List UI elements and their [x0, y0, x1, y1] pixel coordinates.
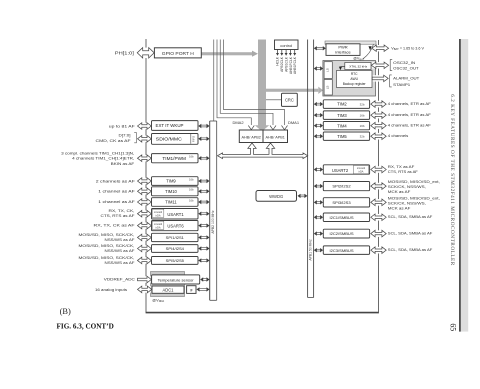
TIM11 arrow: [138, 199, 150, 206]
svg-text:smcard: smcard: [357, 167, 366, 170]
svg-text:Temperature sensor: Temperature sensor: [158, 279, 195, 283]
LS1 arrow to bus: [316, 67, 320, 69]
TIM4 box: [323, 122, 369, 130]
svg-text:OSC32_OUT: OSC32_OUT: [393, 66, 419, 71]
svg-text:SPI2/I2S2: SPI2/I2S2: [332, 184, 351, 189]
svg-text:up to 81 AF: up to 81 AF: [109, 123, 136, 128]
svg-text:NSS/WS as AF: NSS/WS as AF: [105, 238, 136, 242]
svg-text:MOSI/SD, MISO, SCK/CK,: MOSI/SD, MISO, SCK/CK,: [79, 244, 135, 248]
SDIO FIFO sub-box: [190, 134, 192, 144]
svg-text:DMA2: DMA2: [232, 120, 244, 125]
smcard tag: [353, 166, 368, 174]
svg-text:SCL, SDA, SMBA as AF: SCL, SDA, SMBA as AF: [388, 247, 433, 252]
TIM2 box: [323, 100, 369, 109]
svg-text:SCL, SDA, SMBA as AF: SCL, SDA, SMBA as AF: [388, 231, 433, 236]
svg-text:GPIO PORT H: GPIO PORT H: [162, 51, 194, 56]
binding gray strip: [461, 39, 468, 332]
svg-text:FIG. 6.3, CONT’D: FIG. 6.3, CONT’D: [57, 323, 114, 331]
svg-text:CTS, RTS as AF: CTS, RTS as AF: [101, 213, 136, 218]
svg-text:RX, TX, CK as AF: RX, TX, CK as AF: [94, 223, 136, 228]
svg-text:SPI3/I2S3: SPI3/I2S3: [332, 200, 351, 205]
svg-text:irDA: irDA: [156, 215, 161, 218]
svg-text:APB1CLK: APB1CLK: [284, 56, 288, 72]
USART6 box: [152, 221, 199, 231]
svg-text:TIM3: TIM3: [337, 113, 347, 118]
svg-text:interface: interface: [335, 50, 351, 55]
svg-text:16b: 16b: [189, 199, 194, 203]
arrow to APB2 bus: [201, 247, 207, 249]
svg-text:2 channels as AF: 2 channels as AF: [96, 178, 136, 183]
TIM2 AF pins arrow: [372, 101, 386, 108]
SPI2/I2S2 box: [323, 182, 369, 191]
USART2 arrow to APB1 bus: [316, 168, 320, 170]
ADC inputs arrow: [138, 286, 151, 293]
svg-text:AHB/ APB2: AHB/ APB2: [241, 135, 260, 139]
svg-text:NSS/WS as AF: NSS/WS as AF: [105, 261, 136, 265]
ADC1 box: [152, 286, 184, 293]
svg-text:6.2 KEY FEATURES OF THE STM32: 6.2 KEY FEATURES OF THE STM32F411 MICROC…: [449, 94, 455, 266]
gray bus branch to GPIO PORT H: [201, 52, 252, 55]
USART2 box: [323, 165, 369, 174]
wire to DMA1 arrow: [224, 40, 285, 126]
svg-text:1 channel as AF: 1 channel as AF: [98, 189, 135, 194]
AHB/APB2 bridge: [239, 130, 263, 143]
SPI1/I2S1 arrow: [138, 234, 150, 241]
svg-text:AHB/ APB1: AHB/ APB1: [265, 135, 284, 139]
bus feed lines from figure part A: [213, 40, 215, 122]
VBAT wire to backup domain: [363, 44, 374, 59]
arrow to APB2 bus: [201, 200, 207, 202]
arrow to APB2 bus: [201, 212, 207, 214]
svg-text:AHB1FCLK: AHB1FCLK: [293, 56, 297, 74]
temp sensor arrow to bus: [203, 278, 207, 280]
bracket ALARM: [390, 75, 392, 87]
TIM5 AF pins arrow: [372, 133, 386, 140]
svg-text:USART2: USART2: [332, 168, 349, 173]
binding dark line: [459, 39, 461, 332]
TIM4 AF pins arrow: [372, 122, 386, 129]
TIM1/PWM box: [152, 154, 199, 163]
TIM11 box: [152, 198, 199, 207]
TIM5 arrow to APB1 bus: [316, 134, 320, 136]
I2C3/SMBUS box: [323, 246, 369, 255]
USART2 AF pins arrow: [372, 166, 386, 173]
arrow to APB2 bus: [201, 156, 207, 158]
svg-text:AWU: AWU: [350, 77, 358, 81]
TIM4 arrow to APB1 bus: [316, 124, 320, 126]
I2C1/SMBUS box: [323, 213, 369, 222]
gray bus branch to RTC backup domain: [266, 89, 318, 92]
SPI3 arrow to APB1 bus: [316, 200, 320, 202]
svg-text:CRC: CRC: [285, 98, 294, 103]
svg-text:MOSI/SD, MISO, SCK/CK,: MOSI/SD, MISO, SCK/CK,: [79, 233, 135, 237]
svg-text:65: 65: [449, 323, 458, 331]
svg-text:I2C3/SMBUS: I2C3/SMBUS: [329, 248, 353, 253]
svg-text:USART1: USART1: [167, 212, 184, 217]
SPI2 arrow to APB1 bus: [316, 184, 320, 186]
svg-text:IF: IF: [190, 288, 193, 292]
svg-text:VDDREF_ADC: VDDREF_ADC: [104, 277, 135, 282]
wire to AHB/APB1: [220, 40, 273, 126]
TIM3 AF pins arrow: [372, 112, 386, 119]
ADC module background: [151, 272, 185, 297]
AHB/APB1 feed arrowhead: [270, 126, 276, 130]
svg-text:OSC32_IN: OSC32_IN: [393, 60, 415, 65]
svg-text:TIM5: TIM5: [337, 134, 347, 139]
APB distribution arrow tree: [218, 143, 308, 159]
Temperature sensor box: [152, 275, 200, 284]
arrow to APB2 bus: [201, 137, 207, 139]
svg-text:irDA: irDA: [156, 227, 161, 230]
ADC IF box: [187, 286, 196, 294]
svg-text:RTC: RTC: [351, 72, 358, 76]
I2C2/SMBUS box: [323, 229, 369, 238]
svg-text:SDIO/MMC: SDIO/MMC: [156, 137, 182, 142]
AHB1 bus arrowhead into bridges: [255, 125, 269, 131]
svg-text:LS: LS: [325, 68, 329, 72]
black arrow into backup domain: [369, 46, 372, 50]
USART1 box: [152, 209, 199, 220]
VBAT pin arrow: [373, 45, 388, 51]
svg-text:4 channels TIM1_CH[1:4]ETR,: 4 channels TIM1_CH[1:4]ETR,: [72, 156, 134, 161]
RTC AWU backup register box: [337, 71, 373, 88]
AHB/APB1 bridge: [263, 130, 288, 143]
arrow to APB2 bus: [201, 179, 207, 181]
svg-text:control: control: [280, 43, 292, 48]
I2C1/SMBUS arrow to APB1 bus: [316, 215, 320, 217]
LS box 1: [324, 62, 332, 79]
bracket: [134, 133, 136, 143]
svg-text:16b: 16b: [189, 178, 194, 182]
svg-text:smcard: smcard: [154, 211, 163, 214]
svg-text:TIM9: TIM9: [166, 179, 176, 184]
svg-text:@VDDA: @VDDA: [152, 299, 164, 304]
SPI5/I2S5 box: [152, 257, 199, 265]
SPI3/I2S3 box: [323, 198, 369, 207]
svg-text:CTS, RTS as AF: CTS, RTS as AF: [388, 169, 419, 174]
VBAT supply pipe: [325, 41, 376, 44]
svg-text:smcard: smcard: [154, 223, 163, 226]
svg-text:I2C2/SMBUS: I2C2/SMBUS: [329, 231, 353, 236]
OSC32 pins arrow: [372, 62, 388, 68]
USART6 arrow: [138, 222, 150, 229]
USART1 arrow: [138, 210, 150, 217]
SPI4/I2S4 box: [152, 245, 199, 253]
svg-text:16b: 16b: [189, 188, 194, 192]
svg-text:TIM1/PWM: TIM1/PWM: [162, 156, 186, 161]
svg-text:TIM4: TIM4: [337, 123, 347, 128]
RTC backup domain: [323, 61, 376, 97]
XTAL 32 kHz box: [345, 63, 371, 70]
svg-text:XTAL 32 kHz: XTAL 32 kHz: [349, 65, 367, 69]
svg-text:SCL, SDA, SMBA as AF: SCL, SDA, SMBA as AF: [388, 214, 433, 219]
svg-text:SPI5/I2S5: SPI5/I2S5: [166, 258, 185, 263]
TIM1 arrow: [138, 155, 150, 162]
TIM5 box: [323, 132, 369, 140]
svg-text:NSS/WS as AF: NSS/WS as AF: [105, 249, 136, 253]
svg-text:irDA: irDA: [359, 171, 364, 174]
SDIO arrow: [138, 136, 150, 143]
EXT IT arrow: [138, 123, 150, 130]
svg-text:APB1 50 MHz: APB1 50 MHz: [308, 239, 312, 261]
I2C3/SMBUS AF pins arrow: [372, 247, 386, 254]
svg-text:EXT IT WKUP: EXT IT WKUP: [156, 123, 184, 128]
SPI1/I2S1 box: [152, 233, 199, 241]
svg-text:DMA1: DMA1: [288, 120, 300, 125]
svg-text:MCK as AF: MCK as AF: [388, 189, 411, 194]
APB1 bus bar: [307, 40, 309, 298]
svg-text:USART6: USART6: [167, 224, 184, 229]
svg-text:APB2 100 MHz: APB2 100 MHz: [211, 210, 215, 233]
ADC arrow to bus: [199, 288, 207, 290]
TIM3 arrow to APB1 bus: [316, 113, 320, 115]
svg-text:ALARM_OUT: ALARM_OUT: [393, 76, 420, 81]
APB2 bus bar: [209, 121, 211, 300]
ALARM/STAMP pins arrow: [373, 75, 388, 81]
svg-text:Backup register: Backup register: [343, 82, 367, 86]
LS box 2: [324, 80, 332, 96]
svg-text:I2C1/SMBUS: I2C1/SMBUS: [329, 215, 353, 220]
svg-text:16b: 16b: [189, 155, 194, 159]
svg-text:FIFO: FIFO: [192, 136, 196, 142]
svg-text:MOSI/SD, MISO, SCK/CK,: MOSI/SD, MISO, SCK/CK,: [79, 256, 135, 260]
svg-text:4 channels, ETR as AF: 4 channels, ETR as AF: [388, 101, 432, 106]
svg-text:WWDG: WWDG: [269, 194, 283, 199]
WWDG arrow: [300, 194, 305, 196]
TIM10 arrow: [138, 188, 150, 195]
SDIO/MMC box: [152, 134, 199, 145]
SPI5/I2S5 arrow: [138, 257, 150, 264]
svg-text:AHB1FCLK: AHB1FCLK: [289, 56, 293, 74]
svg-text:SPI4/I2S4: SPI4/I2S4: [166, 246, 185, 251]
GPIO PORT H box: [154, 48, 201, 58]
svg-text:16 analog inputs: 16 analog inputs: [95, 287, 127, 292]
arrow to APB2 bus: [201, 224, 207, 226]
AHB1 system bus (gray vertical bar): [258, 40, 266, 127]
CRC box: [282, 93, 298, 106]
svg-text:PH[1:0]: PH[1:0]: [115, 50, 134, 55]
svg-text:LS: LS: [325, 86, 329, 90]
svg-text:MCK as AF: MCK as AF: [388, 205, 411, 210]
black connector XTAL to RTC: [339, 67, 342, 71]
wire to DMA2 arrow: [217, 40, 251, 126]
svg-text:HCLK: HCLK: [276, 56, 280, 66]
EXTI WKUP box: [152, 121, 199, 131]
svg-text:4 channels: 4 channels: [388, 133, 409, 138]
chip boundary right edge: [378, 40, 380, 313]
TIM9 arrow: [138, 178, 150, 185]
RCC control box: [275, 40, 299, 50]
svg-text:STAMP1: STAMP1: [393, 82, 410, 87]
I2C1/SMBUS AF pins arrow: [372, 214, 386, 221]
PWR interface box: [326, 44, 360, 56]
arrow to APB2 bus: [201, 236, 207, 238]
I2C2/SMBUS arrow to APB1 bus: [316, 232, 320, 234]
arrow to APB2 bus: [201, 189, 207, 191]
smcard tag: [152, 209, 164, 217]
svg-text:APB2CLK: APB2CLK: [280, 56, 284, 72]
SPI4/I2S4 arrow: [138, 245, 150, 252]
svg-text:4 channels, ETR as AF: 4 channels, ETR as AF: [388, 112, 432, 117]
bracket OSC32: [390, 60, 392, 71]
svg-text:3 compl. channels TIM1_CH1[1:3: 3 compl. channels TIM1_CH1[1:3]N,: [61, 150, 134, 155]
svg-text:SPI1/I2S1: SPI1/I2S1: [166, 235, 185, 240]
GPIO PORT H arrow: [138, 48, 153, 58]
clock output arrows: [277, 50, 279, 54]
arrow to APB2 bus: [201, 259, 207, 261]
chip boundary bottom edge: [146, 312, 379, 314]
svg-text:16b: 16b: [360, 113, 365, 117]
svg-text:32b: 32b: [360, 135, 365, 139]
arrow to APB2 bus: [201, 124, 207, 126]
PWR arrow to bus: [316, 46, 323, 48]
TIM10 box: [152, 187, 199, 196]
svg-text:CMD, CK as AF: CMD, CK as AF: [96, 138, 132, 143]
svg-text:TIM10: TIM10: [165, 189, 177, 194]
svg-text:TIM11: TIM11: [165, 200, 177, 205]
TIM3 box: [323, 111, 369, 120]
SPI2 AF pins arrow: [372, 183, 386, 190]
DMA2 arrowhead: [248, 126, 254, 130]
TIM9 box: [152, 177, 199, 186]
SPI3 AF pins arrow: [372, 199, 386, 206]
smcard tag: [152, 221, 164, 229]
DMA1 arrowhead: [282, 126, 288, 130]
svg-text:16b: 16b: [360, 124, 365, 128]
svg-text:1 channel as AF: 1 channel as AF: [98, 199, 135, 204]
I2C3/SMBUS arrow to APB1 bus: [316, 248, 320, 250]
svg-text:VBAT = 1.65 to 3.6 V: VBAT = 1.65 to 3.6 V: [391, 47, 424, 52]
chip boundary left edge: [145, 39, 147, 313]
svg-text:4 channels, ETR as AF: 4 channels, ETR as AF: [388, 123, 432, 128]
VDDREF arrow: [138, 276, 151, 283]
svg-text:(B): (B): [60, 307, 71, 316]
svg-text:TIM2: TIM2: [337, 102, 347, 107]
svg-text:BKIN as AF: BKIN as AF: [111, 161, 135, 166]
WWDG box: [256, 191, 297, 202]
svg-text:ADC1: ADC1: [163, 288, 175, 293]
I2C2/SMBUS AF pins arrow: [372, 230, 386, 237]
svg-text:32b: 32b: [360, 102, 365, 106]
TIM2 arrow to APB1 bus: [316, 102, 320, 104]
wire AHB bus to CRC: [266, 99, 282, 101]
